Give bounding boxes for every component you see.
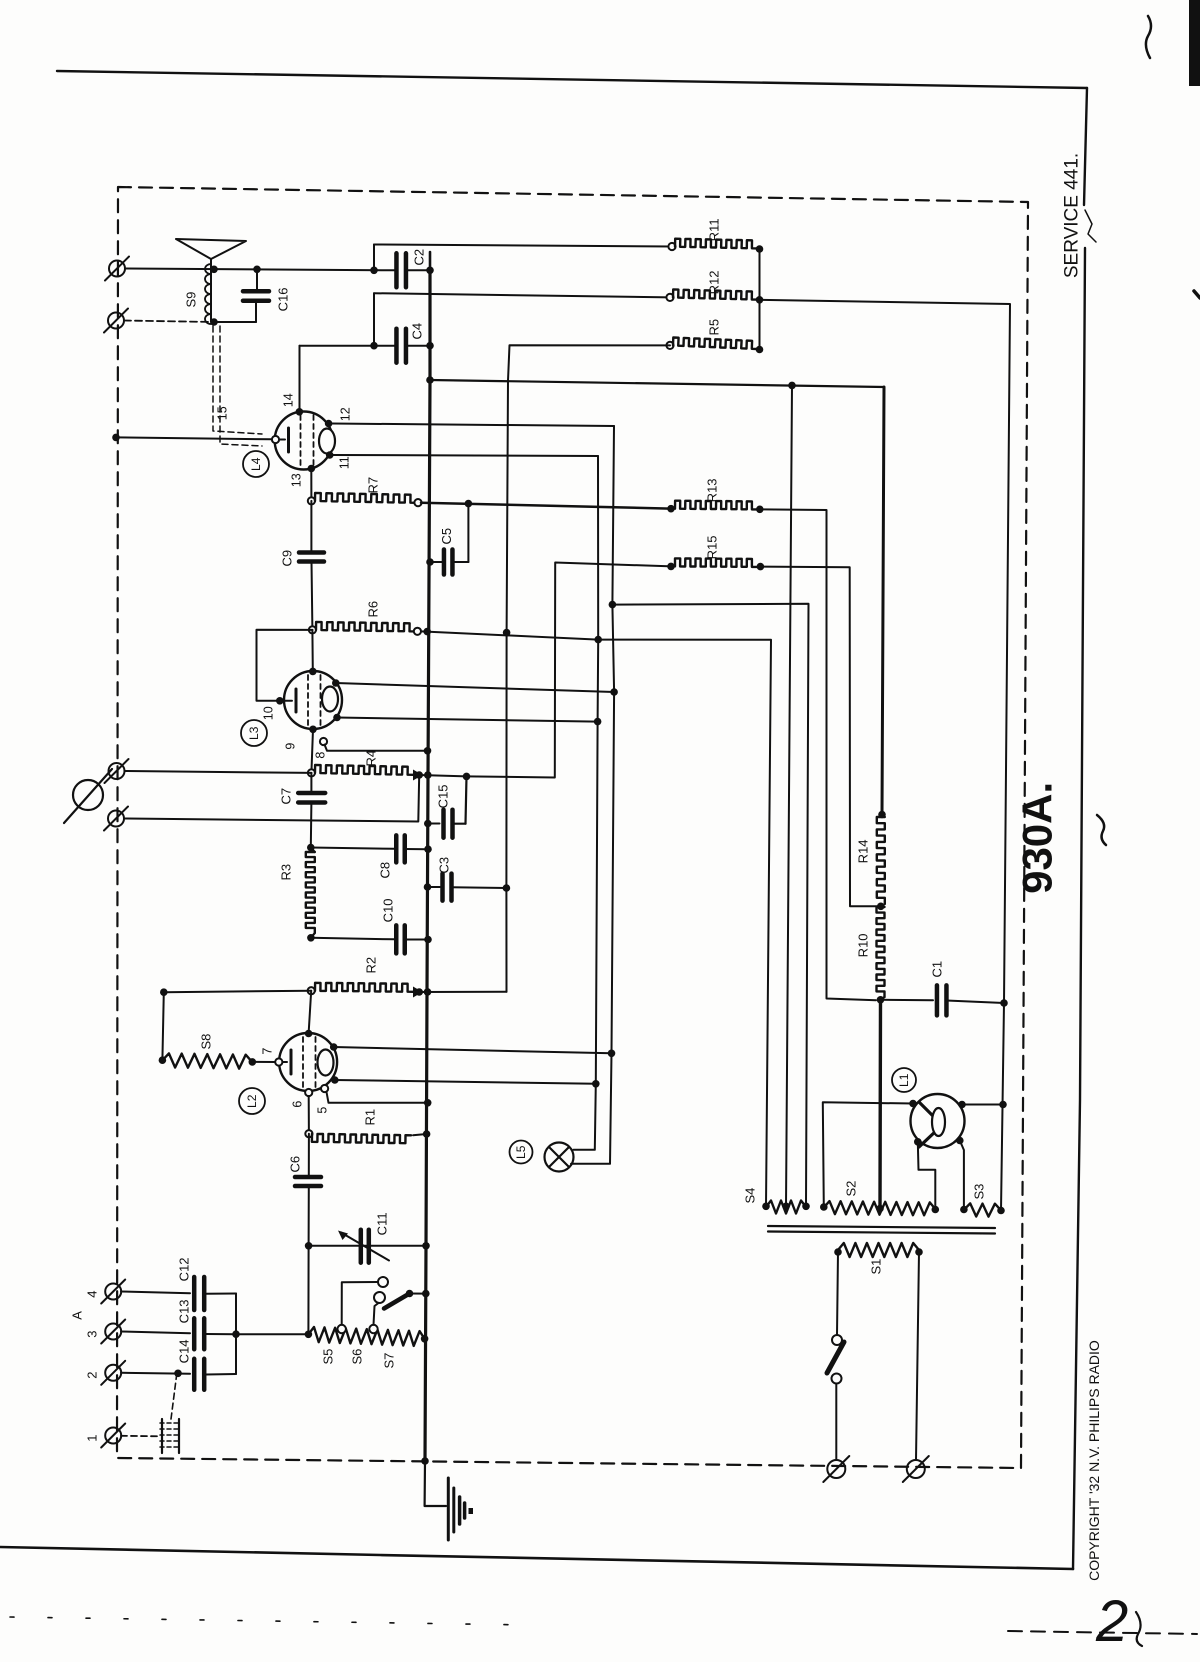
svg-text:R6: R6 [366,601,381,618]
svg-text:C2: C2 [412,249,427,266]
svg-text:14: 14 [281,393,295,407]
svg-text:13: 13 [289,473,303,487]
page border bottom [0,1547,1073,1569]
L4 pin 11 [326,451,334,459]
wire pin5 to bus [327,1092,428,1103]
resistor R13 [667,505,675,513]
heater return wire R6 to S4 [421,631,771,1206]
L5 designation [510,1141,533,1164]
svg-text:C3: C3 [437,857,452,874]
wire C13 to S5 [236,1333,308,1335]
wire R2 right [419,991,506,993]
resistor R12 [666,294,673,301]
wire aerial to C2 [125,269,396,271]
svg-text:R5: R5 [707,319,722,336]
fuse link [121,1435,158,1438]
svg-text:R13: R13 [705,478,720,502]
pick-up symbol [73,780,103,810]
svg-text:3: 3 [85,1331,100,1338]
resistor R1 [308,1096,310,1134]
svg-text:L5: L5 [514,1145,528,1159]
terminal 3 [105,1324,121,1340]
L1 filament [920,1103,944,1127]
capacitor C2 [394,253,399,287]
wire pin13 to R7 [310,469,312,501]
potentiometer S5 S6 S7 [305,1331,313,1339]
earth connection [425,1461,446,1506]
svg-text:R12: R12 [707,270,722,294]
L4 cathode [276,439,285,441]
L3 grid dashes [307,675,309,727]
svg-text:9: 9 [283,743,297,750]
main earth bus [425,270,430,1461]
wire R12 right to HT vertical [760,300,1011,1211]
svg-text:C12: C12 [177,1257,192,1281]
svg-text:S4: S4 [743,1188,758,1204]
junction C15 riser [463,773,471,781]
resistor R2 [308,987,315,994]
junction C16 top [253,266,261,274]
L2 pin 6 [305,1089,312,1096]
bottom dash-dot scan line right [1008,1631,1197,1634]
svg-text:C16: C16 [276,287,291,311]
capacitor C10 [311,938,394,940]
wire line2 down to C4 [373,293,375,346]
winding S3 [960,1206,968,1214]
variable capacitor C11 [309,1245,426,1247]
capacitor C12 [121,1292,190,1294]
wire R13 right to R10 bottom [760,509,876,1000]
svg-text:11: 11 [337,456,351,469]
wire HT line [430,380,884,387]
pick-up terminal lower [108,811,124,827]
L3 pin 9 [309,726,317,734]
svg-text:L2: L2 [245,1094,259,1108]
resistor R14 [878,811,886,819]
svg-text:C10: C10 [381,898,396,922]
wire R2 left to S8 [164,991,311,993]
svg-text:4: 4 [85,1291,100,1298]
mains switch [832,1335,842,1345]
coil S9 [210,259,212,322]
junction HT bus [426,376,434,384]
junction R7 C5 [465,500,473,508]
wire line2 to R12 [374,293,670,297]
capacitor C16 [256,269,258,291]
waveband switch [378,1277,388,1287]
resistor R6 [309,626,316,633]
svg-text:R7: R7 [366,477,381,494]
terminal 1 [105,1428,121,1444]
aerial terminal [109,261,125,277]
wire L1 to S2 left [823,1102,913,1207]
page border right [1084,88,1087,205]
junction C11 bus [422,1242,430,1250]
wire down to S4 centre tap [786,385,792,1206]
wire down to R14 [882,387,884,815]
svg-text:R1: R1 [363,1109,378,1126]
junction R4 bus [424,771,432,779]
L2 cathode [279,1061,287,1063]
svg-text:C7: C7 [279,788,294,805]
heater wire B vertical [574,456,599,1150]
L1 designation [892,1068,916,1092]
wire R5 vertical lower [506,381,508,992]
capacitor C5 [430,561,444,563]
svg-text:S7: S7 [382,1353,397,1369]
L3 designation [241,720,267,746]
capacitor C6 [308,1134,310,1177]
L3 pin 8 [320,738,327,745]
L4 pin 14 [296,408,304,416]
wire R4 right [419,775,466,776]
L2 heater pin lower [331,1076,339,1084]
L3 pin 10 [276,697,284,705]
scan mark bracket right middle [1097,815,1106,845]
junction C5 bus [426,558,434,566]
junction HT to S4 centre vertical [788,382,796,390]
wire R10 bottom to S2 centre [878,1000,882,1209]
wire pin9 down [311,729,313,773]
svg-text:7: 7 [260,1048,274,1055]
svg-text:C1: C1 [930,961,945,978]
junction C4 left [370,342,378,350]
svg-text:R4: R4 [364,750,379,767]
L2 top pin [305,1030,313,1038]
capacitor C14 [121,1373,190,1374]
svg-text:C11: C11 [375,1212,390,1235]
winding S1 [838,1243,919,1257]
svg-text:C13: C13 [177,1299,192,1323]
svg-text:R15: R15 [705,535,720,559]
wire pin11 heater [333,455,598,456]
wire S8 to pin7 [252,1061,275,1063]
tap S6 [338,1325,346,1333]
L4 anode [319,429,335,454]
valve L2 envelope [279,1033,337,1091]
winding S4 [762,1203,770,1211]
wire down to S5 [307,1246,309,1334]
pick-up wire to R4 right [124,775,419,822]
chassis dashed border [117,187,1028,1468]
svg-text:1: 1 [85,1435,100,1442]
svg-text:R3: R3 [279,864,294,881]
wire C12 C13 C14 common [235,1294,237,1375]
capacitor C3 [424,883,432,891]
pick-up terminal upper [109,763,125,779]
L2 grid dashes [302,1037,304,1089]
wire S6 tap to switch [342,1282,378,1325]
svg-text:R10: R10 [856,933,871,957]
L4 designation [243,451,269,477]
svg-text:SERVICE 441.: SERVICE 441. [1062,153,1083,278]
junction C2 bus [426,267,434,275]
junction R10 bottom [877,996,885,1004]
tap S7 [369,1325,377,1333]
junction R3 bottom [307,934,315,942]
capacitor C9 [299,550,324,555]
L3 heater pin upper [332,679,340,687]
L1 pin lower-right [956,1137,964,1145]
L2 heater pin upper [330,1043,338,1051]
wire S1 right to mains terminal [916,1252,919,1460]
transformer core [768,1226,995,1228]
mains terminal right [907,1460,925,1478]
L2 designation [239,1088,265,1114]
capacitor C15 [424,820,432,828]
wire chassis to grid L4 pin 15 [116,437,272,439]
svg-text:S1: S1 [869,1259,884,1275]
antenna symbol [176,239,246,259]
L1 pin upper-right [958,1101,966,1109]
svg-text:A: A [70,1311,85,1320]
L3 top pin [309,668,317,676]
junction C4 bus [426,342,434,350]
wire R5 left branch [508,345,670,380]
terminal 4 [105,1284,121,1300]
wire R7 to R13 [421,503,670,509]
wire pin8 to bus [325,745,428,751]
svg-text:C4: C4 [410,323,425,340]
junction at C2 branch [370,267,378,275]
svg-text:L1: L1 [897,1073,911,1087]
svg-text:S3: S3 [972,1184,987,1200]
junction bus chassis [421,1457,429,1465]
capacitor C13 [121,1332,190,1334]
valve L4 envelope [275,412,333,470]
svg-text:930A.: 930A. [1014,782,1061,894]
svg-text:S6: S6 [350,1349,365,1365]
svg-text:6: 6 [290,1101,304,1108]
svg-text:S9: S9 [184,292,199,308]
svg-text:C9: C9 [280,550,295,567]
svg-text:8: 8 [313,752,327,759]
svg-text:C14: C14 [177,1339,192,1363]
terminal 2 [105,1365,121,1381]
L4 pin 12 [325,420,333,428]
resistor R11 [668,243,675,250]
L3 heater pin lower [333,714,341,722]
junction on chassis border [112,434,120,442]
svg-text:C5: C5 [439,528,454,545]
svg-text:L4: L4 [249,457,263,471]
resistor R15 [667,563,675,571]
junction S9 top [210,266,218,274]
svg-text:C6: C6 [288,1156,303,1173]
svg-text:COPYRIGHT '32 N.V. PHILIPS RAD: COPYRIGHT '32 N.V. PHILIPS RADIO [1086,1340,1102,1581]
wire S1 left to switch [837,1252,838,1335]
tear mark in right border [1085,210,1096,242]
scan edge black band top-right [1189,0,1200,86]
valve L3 envelope [284,671,342,729]
wire heater A to S4 right tap [612,604,808,1206]
resistor R7 [308,497,315,504]
L2 pin 7 [275,1058,282,1065]
junction R3 top [307,844,315,852]
svg-text:R2: R2 [364,957,379,974]
svg-text:2: 2 [1095,1589,1128,1654]
svg-text:S2: S2 [844,1181,859,1197]
capacitor C7 [310,773,312,793]
resistor S8 [159,1056,167,1064]
wire switch to mains terminal [835,1384,837,1460]
svg-text:C15: C15 [436,784,451,808]
winding S2 [820,1203,828,1211]
wire to R15 riser [467,563,673,778]
L1 pin lower-left [914,1138,922,1146]
L2 pin 5 [321,1085,328,1092]
wire to R11 [374,245,672,247]
scan mark right edge [1146,16,1151,58]
dashed wire fuse to terminal2 wire [171,1376,177,1419]
svg-text:5: 5 [315,1107,329,1114]
earth terminal [108,313,124,329]
wire up to R11 line [373,245,375,271]
L1 pin upper-left [909,1100,917,1108]
svg-text:10: 10 [261,706,275,720]
shield dashes to valve L4 [213,326,262,434]
svg-text:15: 15 [215,406,229,420]
L3 anode [322,687,338,712]
wire pin12 heater [332,424,614,427]
heater wire A vertical [571,426,614,1164]
svg-text:S5: S5 [321,1349,336,1365]
L4 pin 13 [308,465,316,473]
junction R14 R10 left wire [877,903,885,911]
resistor R5 [666,342,673,349]
wire earth terminal dashed [124,321,214,323]
junction S9 bottom [210,318,218,326]
junction bus heater [423,628,431,636]
bottom dash-dot scan line left [10,1617,530,1625]
junction C11 left [305,1242,313,1250]
L1 anode [932,1108,945,1136]
dial lamp L5 [545,1143,574,1172]
svg-text:R11: R11 [707,218,722,241]
svg-text:2: 2 [85,1372,100,1379]
svg-text:12: 12 [338,407,352,421]
L4 grid dashes [300,415,302,467]
page border top [57,71,1087,88]
svg-text:R14: R14 [856,839,871,863]
wire L3 grid jog [257,630,313,701]
wire R15 right to R14 top [760,567,878,907]
wire L4 pin14 to C4 [300,345,375,347]
wire down to C5 [467,504,469,562]
capacitor C8 [311,848,394,849]
L2 anode [318,1050,334,1076]
valve L1 envelope [911,1094,965,1148]
L4 pin 15 [272,436,279,443]
capacitor C4 [374,345,396,347]
mains terminal left [827,1460,845,1478]
capacitor C1 [881,999,934,1001]
L3 cathode [284,700,292,702]
resistor R3 [311,848,315,853]
resistor R10 [877,907,885,997]
svg-text:L3: L3 [247,726,261,740]
resistor R4 [308,769,315,776]
earth symbol [447,1478,450,1540]
wire R7 left down [310,501,312,553]
svg-text:C8: C8 [378,862,393,879]
wire R11 R12 R5 right ends [759,249,761,350]
junction R5 vertical [503,629,511,637]
wire pick-up to R4 left [125,771,312,773]
svg-text:S8: S8 [199,1034,214,1050]
